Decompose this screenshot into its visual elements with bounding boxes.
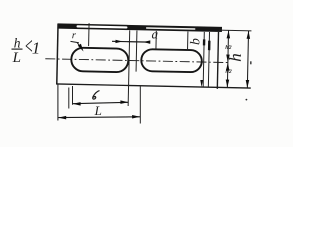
slot 2 <box>141 49 202 72</box>
L extension right <box>139 86 141 123</box>
scan speckles <box>246 99 248 101</box>
top band (section strip) <box>57 23 222 32</box>
band opening 2 <box>146 27 196 30</box>
formula h/L < 1 <box>12 35 41 66</box>
svg-text:L: L <box>94 103 102 118</box>
svg-text:h: h <box>226 53 245 62</box>
L dimension line <box>58 116 140 119</box>
slot 1 <box>71 48 128 73</box>
a dimension: extension lines <box>128 30 130 106</box>
small vertical line above slot2 <box>155 31 157 50</box>
centerline <box>45 59 228 63</box>
h dimension line <box>247 31 248 88</box>
svg-text:r: r <box>72 30 77 41</box>
svg-text:h: h <box>14 35 21 50</box>
a dimension arrows <box>112 40 150 43</box>
svg-text:1: 1 <box>32 39 41 58</box>
inner dimension line (h/2 pair) <box>227 30 228 87</box>
plate left edge <box>57 24 58 84</box>
small vertical line above slot1 <box>88 23 90 46</box>
svg-text:L: L <box>12 50 21 66</box>
plate bottom edge <box>56 84 251 88</box>
h/2 tiny labels <box>225 45 233 75</box>
svg-text:b: b <box>187 38 202 45</box>
small vertical line above slot2 right <box>187 32 189 51</box>
r leader <box>70 41 78 42</box>
L extension left (plate edge extended) <box>57 85 59 121</box>
l label <box>92 89 99 100</box>
l extension left <box>72 86 74 105</box>
l dimension line <box>73 102 129 103</box>
top extension line right <box>219 29 251 32</box>
svg-text:h/2: h/2 <box>225 45 232 51</box>
b line 1 <box>203 32 204 87</box>
svg-text:h/2: h/2 <box>225 69 232 75</box>
b line 2 <box>208 32 209 87</box>
band opening 1 <box>76 25 127 28</box>
plate right edge <box>217 32 218 89</box>
extension stub left of l <box>68 88 70 109</box>
bottom dimensions (absolute, scan flatter here) <box>58 85 140 124</box>
svg-text:a: a <box>151 26 158 41</box>
